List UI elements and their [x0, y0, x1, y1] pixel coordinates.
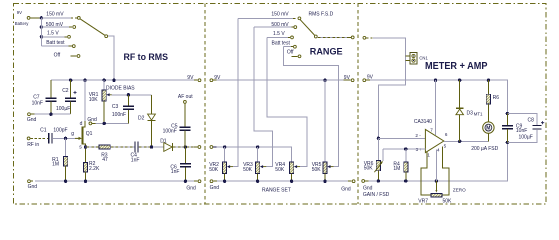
svg-text:150 mV: 150 mV	[271, 12, 289, 18]
switch arm SW1b	[300, 20, 317, 38]
svg-text:Gnd: Gnd	[210, 185, 220, 191]
capacitor C8 100uF	[519, 117, 545, 140]
svg-text:5: 5	[444, 144, 447, 149]
svg-text:AF out: AF out	[178, 94, 193, 100]
switch arm SW1a	[80, 19, 107, 38]
svg-text:10K: 10K	[89, 97, 99, 103]
svg-text:Gnd: Gnd	[27, 117, 37, 123]
diode D3	[456, 80, 483, 141]
capacitor C3 100nF	[112, 95, 134, 124]
wire 9V rail range	[213, 79, 351, 82]
resistor R6	[486, 80, 499, 122]
ground terminal Gnd (bias)	[87, 117, 128, 125]
svg-text:150 mV: 150 mV	[46, 12, 64, 18]
ground terminal right (range)	[341, 180, 355, 193]
svg-text:1: 1	[427, 153, 430, 158]
svg-text:RF in: RF in	[27, 142, 39, 148]
wire switch position 150mV	[41, 12, 80, 20]
switch contact 500mV (range)	[254, 22, 297, 29]
capacitor C2 100uF	[56, 80, 77, 114]
diode D2	[138, 95, 155, 147]
wire range input line	[213, 145, 291, 162]
wire VR5 top to 9V rail	[324, 80, 326, 162]
diode D1	[160, 139, 172, 152]
svg-text:9V: 9V	[17, 10, 22, 15]
ground bus range	[210, 180, 352, 192]
wire switch pole to 9V rail	[108, 36, 114, 80]
svg-text:RANGE: RANGE	[310, 47, 343, 58]
svg-text:GAIN / FSD: GAIN / FSD	[363, 192, 390, 198]
node detector output junction	[184, 145, 187, 148]
section divider 2	[357, 4, 359, 204]
svg-text:7: 7	[430, 128, 433, 133]
svg-text:1nF: 1nF	[131, 157, 140, 163]
svg-text:2.2K: 2.2K	[89, 166, 100, 172]
resistor R3 47	[99, 145, 110, 163]
svg-text:C1: C1	[40, 128, 47, 134]
resistor R4 1M	[393, 149, 408, 181]
svg-text:1M: 1M	[393, 166, 400, 172]
svg-text:200 µA FSD: 200 µA FSD	[471, 146, 498, 152]
svg-text:VR7: VR7	[418, 198, 428, 204]
wire C1 to Q1 gate	[53, 137, 75, 140]
svg-text:100µF: 100µF	[519, 134, 533, 140]
potentiometer VR3 50K	[243, 147, 266, 181]
svg-text:Q1: Q1	[86, 131, 93, 137]
net label RMS F.S.D	[309, 12, 334, 18]
wire diode bias line	[112, 93, 152, 96]
node detector junction D2	[150, 145, 153, 148]
output terminal to RANGE	[198, 146, 201, 149]
wire battery to bus	[30, 17, 40, 19]
output terminal AF out	[178, 94, 193, 103]
svg-text:47: 47	[102, 157, 108, 163]
wire C8 top branch	[507, 114, 537, 126]
svg-text:R6: R6	[493, 95, 500, 101]
svg-text:CN1: CN1	[419, 56, 428, 61]
svg-text:M: M	[486, 126, 490, 132]
wire op-amp pin3 input	[383, 147, 426, 150]
capacitor C7 10nF	[32, 80, 57, 114]
wire input to op-amp pin2	[366, 38, 425, 140]
svg-text:Batt test: Batt test	[272, 41, 291, 47]
capacitor C1 100pF	[40, 128, 67, 144]
switch contact 150mV (range)	[238, 12, 301, 20]
wire 9V rail meter section	[366, 79, 507, 114]
ground terminal right section1	[186, 180, 201, 192]
switch contact Batt test (range)	[272, 41, 297, 49]
capacitor C9 10nF	[502, 114, 527, 143]
svg-text:100pF: 100pF	[53, 128, 67, 134]
wire bus 150mV to VR2 wiper	[233, 18, 238, 166]
ground bus section1	[28, 180, 198, 191]
wire bus Batt test to VR5 wiper	[283, 47, 338, 167]
svg-text:Gnd: Gnd	[186, 185, 196, 191]
wire op-amp pin7 to 9V	[435, 80, 437, 135]
svg-text:10nF: 10nF	[516, 128, 527, 134]
frame border	[13, 4, 546, 204]
svg-text:Off: Off	[287, 50, 294, 56]
label RANGE SET	[262, 188, 291, 194]
svg-text:D1: D1	[160, 139, 167, 145]
input terminal (range, from RF to RMS)	[210, 146, 213, 149]
capacitor C5 100nF	[163, 104, 191, 147]
resistor R1 1M	[52, 138, 68, 181]
node 9V rail junctions	[69, 79, 116, 82]
title METER + AMP	[425, 61, 488, 72]
svg-text:D3: D3	[467, 110, 474, 116]
svg-text:RMS F.S.D: RMS F.S.D	[309, 12, 334, 18]
section divider 1	[204, 4, 206, 204]
wire RMS FSD pole output	[318, 36, 355, 39]
svg-text:3 +: 3 +	[416, 147, 423, 152]
svg-text:1nF: 1nF	[171, 169, 180, 175]
potentiometer VR6 50K GAIN	[364, 138, 383, 181]
wire bus 500mV to VR3 wiper	[254, 27, 273, 167]
svg-text:MT1: MT1	[474, 112, 483, 117]
terminal 9V right	[187, 75, 201, 82]
svg-text:50K: 50K	[443, 198, 453, 204]
transistor Q1 JFET	[71, 80, 92, 150]
svg-text:50K: 50K	[364, 165, 374, 171]
svg-text:d: d	[80, 121, 83, 127]
svg-text:ZERO: ZERO	[453, 188, 466, 193]
svg-text:50K: 50K	[243, 167, 253, 173]
ground bus meter section	[362, 142, 508, 197]
node Q1 source junction	[84, 145, 87, 148]
wire switch position 500mV	[41, 22, 75, 29]
wire RF in to C1 (dashed)	[30, 137, 48, 139]
svg-text:100nF: 100nF	[112, 112, 126, 118]
capacitor C4 1nF	[131, 142, 140, 164]
svg-text:2 -: 2 -	[415, 133, 421, 138]
resistor R2 2.2K	[83, 147, 100, 181]
battery terminal	[27, 17, 30, 20]
node C9 top junction	[506, 112, 509, 115]
meter MT1	[483, 122, 494, 141]
svg-text:C7: C7	[33, 94, 40, 100]
wire op-amp output	[444, 140, 499, 152]
svg-text:Gnd: Gnd	[87, 117, 97, 123]
wire op-amp pin1 to VR7	[421, 152, 431, 195]
potentiometer VR4 50K	[275, 162, 300, 181]
svg-text:500 mV: 500 mV	[46, 22, 64, 28]
node battery bus junction	[40, 16, 43, 38]
svg-text:DIODE BIAS: DIODE BIAS	[106, 86, 135, 92]
ground terminal Gnd (C7/C2)	[27, 113, 71, 123]
svg-text:Gnd: Gnd	[28, 184, 38, 190]
input terminal RMS FSD (meter section)	[363, 36, 366, 39]
svg-text:50K: 50K	[275, 167, 285, 173]
wire bus 1.5V to VR4 wiper	[267, 37, 307, 166]
svg-text:C8: C8	[528, 117, 535, 123]
svg-text:10nF: 10nF	[32, 101, 43, 107]
wire op-amp pin4 to ground	[435, 150, 437, 181]
svg-text:1M: 1M	[52, 162, 59, 168]
capacitor C6 1nF	[170, 147, 191, 181]
svg-text:RANGE SET: RANGE SET	[262, 188, 291, 194]
svg-text:s: s	[79, 145, 82, 151]
svg-text:RF to RMS: RF to RMS	[124, 52, 169, 62]
svg-text:6: 6	[445, 132, 448, 137]
potentiometer VR1 10K	[89, 80, 136, 123]
svg-text:9V: 9V	[187, 75, 194, 81]
wire switch position 1.5V	[41, 30, 70, 38]
svg-text:C2: C2	[62, 88, 69, 94]
terminal 9V left (range)	[210, 75, 221, 82]
wire battery bus vertical	[40, 18, 42, 46]
svg-text:Gnd: Gnd	[341, 186, 351, 192]
battery label 9V Battery	[15, 10, 29, 26]
potentiometer VR2 50K	[209, 147, 233, 181]
wire detector line	[86, 146, 198, 148]
wire switch position Batt test	[41, 40, 75, 47]
connector CN1	[405, 52, 428, 64]
terminal 9V (meter section)	[363, 74, 374, 81]
title RF to RMS	[124, 52, 169, 62]
title RANGE	[310, 47, 343, 58]
potentiometer VR5 50K	[312, 162, 334, 181]
op-amp U1 CA3140	[414, 119, 448, 158]
svg-text:Battery: Battery	[15, 21, 29, 26]
wire C8 bottom branch	[507, 130, 537, 142]
switch contact 1.5V (range)	[267, 31, 293, 39]
svg-text:4: 4	[437, 148, 440, 153]
svg-text:1.5 V: 1.5 V	[47, 30, 59, 36]
potentiometer VR7 50K ZERO	[418, 181, 466, 204]
svg-text:C3: C3	[112, 104, 119, 110]
svg-text:Batt test: Batt test	[46, 40, 65, 46]
wire op-amp pin5 to VR7	[442, 147, 449, 195]
svg-text:9V: 9V	[344, 75, 351, 81]
svg-text:50K: 50K	[312, 167, 322, 173]
terminal 9V right (range)	[344, 75, 354, 82]
switch position Off	[54, 52, 80, 58]
svg-text:D2: D2	[138, 115, 145, 121]
svg-text:100nF: 100nF	[163, 129, 177, 135]
svg-text:g: g	[71, 131, 74, 137]
svg-text:Gnd: Gnd	[363, 186, 373, 192]
svg-text:1.5 V: 1.5 V	[273, 31, 285, 37]
svg-text:CA3140: CA3140	[414, 119, 432, 125]
wire 9V rail section1	[51, 79, 198, 81]
input terminal RF in	[27, 137, 39, 148]
svg-text:50K: 50K	[209, 167, 219, 173]
svg-text:100µF: 100µF	[56, 106, 70, 112]
svg-text:Off: Off	[54, 52, 61, 58]
node C9 bottom junction	[506, 141, 509, 144]
switch contact Off (range)	[287, 50, 301, 58]
svg-text:METER + AMP: METER + AMP	[425, 61, 488, 72]
svg-text:9V: 9V	[367, 74, 374, 80]
